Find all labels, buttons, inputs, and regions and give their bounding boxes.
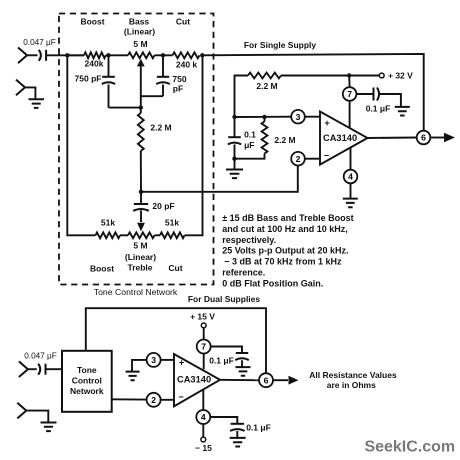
svg-text:μF: μF (244, 140, 254, 150)
svg-text:All Resistance Values: All Resistance Values (309, 370, 397, 380)
svg-text:Treble: Treble (127, 263, 152, 273)
svg-text:0.1 μF: 0.1 μF (366, 104, 391, 114)
svg-text:− 3 dB at 70 kHz from 1 kHz: − 3 dB at 70 kHz from 1 kHz (224, 257, 342, 267)
tone control network block (dual supply) (62, 351, 112, 412)
input jack J4 (dual supply, grounded) (17, 403, 48, 422)
svg-text:and cut at 100 Hz and 10 kHz,: and cut at 100 Hz and 10 kHz, (222, 224, 348, 234)
label R1 240k (85, 59, 104, 69)
svg-text:CA3140: CA3140 (177, 374, 211, 384)
wire: treble pot to R7 (155, 234, 161, 236)
svg-text:Cut: Cut (176, 17, 190, 27)
label R4 2.2 M (150, 123, 171, 133)
label R2 5 M (133, 39, 147, 49)
svg-text:2.2 M: 2.2 M (274, 135, 295, 145)
svg-text:SeekIC.com: SeekIC.com (364, 439, 455, 456)
wire: pin 4 to ground (350, 183, 352, 198)
svg-text:2.2 M: 2.2 M (256, 81, 277, 91)
capacitor C4 20 pF (133, 192, 149, 222)
pin 7 circle (U1 V+) (343, 87, 357, 101)
svg-text:6: 6 (264, 375, 269, 385)
pin 2 circle (U2 inverting input) (147, 393, 161, 407)
wire: pin 7 to U2 (203, 354, 205, 370)
svg-text:Cut: Cut (168, 263, 182, 273)
label R6 5 M (133, 241, 147, 251)
input jack J3 (dual supply) (19, 361, 37, 377)
label C8 0.1 uF (209, 356, 234, 366)
capacitor C6 0.1 uF (supply bypass) (356, 88, 401, 107)
pin 3 circle (U2 non-inverting input) (147, 353, 161, 367)
svg-text:25 Volts p-p Output at 20 kHz.: 25 Volts p-p Output at 20 kHz. (222, 246, 348, 256)
op-amp U1 CA3140 (single supply) (320, 112, 368, 165)
svg-text:0.047 μF: 0.047 μF (23, 38, 55, 47)
wire: U1 to pin 4 (350, 148, 352, 170)
svg-text:51k: 51k (101, 218, 115, 228)
svg-text:−: − (324, 151, 329, 161)
SeekIC.com watermark (364, 439, 455, 456)
label R9 2.2 M (256, 81, 277, 91)
svg-text:4: 4 (201, 412, 206, 422)
capacitor C1 0.047 uF (input coupling) (39, 50, 84, 61)
capacitor C3 750 pF (right) (141, 55, 170, 96)
wire: input node to bass network (67, 54, 84, 56)
label Boost (bass pot, left) (80, 17, 104, 27)
resistor R8 2.2 M (pin 3 to ground node) (235, 117, 268, 159)
wire: pin 4 to -15 terminal (202, 424, 204, 437)
label R7 51k (165, 218, 179, 228)
wiper of bass pot (arrow up) with wire down (137, 59, 145, 108)
label +15 V (190, 312, 215, 322)
wire: +32V node to pin 7 (348, 76, 350, 88)
label C1 value 0.047 uF (23, 38, 55, 47)
label C7 0.047 uF (24, 352, 56, 361)
wire: pin 2 stub to U2 (161, 399, 174, 401)
wire: pin 3 to ground (132, 360, 147, 371)
label R5 51k (101, 218, 115, 228)
svg-text:Control: Control (72, 376, 102, 386)
svg-text:+ 32 V: + 32 V (388, 71, 413, 81)
wire: pin 7 to U1 (349, 101, 351, 128)
note text block (performance summary) (222, 213, 353, 289)
svg-text:51k: 51k (165, 218, 179, 228)
label Treble (127, 263, 152, 273)
node: R1/C2/5M junction (106, 53, 110, 57)
svg-text:20 pF: 20 pF (152, 201, 174, 211)
input jack J1 (top section) (18, 48, 38, 64)
svg-text:Tone: Tone (77, 365, 97, 375)
svg-text:(Linear): (Linear) (124, 27, 155, 37)
capacitor C8 0.1 uF (V+ bypass, dual) (211, 347, 249, 367)
capacitor C9 0.1 uF (V- bypass, dual) (210, 417, 244, 438)
svg-text:0.1 μF: 0.1 μF (246, 423, 271, 433)
node: +32V junction (347, 73, 351, 77)
svg-text:CA3140: CA3140 (323, 133, 357, 143)
capacitor C7 0.047 uF (input coupling, dual) (38, 364, 62, 375)
svg-text:0.047 μF: 0.047 μF (24, 352, 56, 361)
wire: R5 to treble pot (120, 234, 128, 236)
svg-text:pF: pF (173, 83, 183, 93)
svg-text:6: 6 (421, 133, 426, 143)
svg-text:240k: 240k (85, 59, 104, 69)
label R6 (Linear) (125, 252, 156, 262)
node: 5M/R3/C3 junction (161, 53, 165, 57)
svg-text:2: 2 (151, 395, 156, 405)
resistor R9 2.2 M (pin 3 to +32V) (235, 73, 350, 117)
label C4 20 pF (152, 201, 174, 211)
wire: U2 to pin 4 (202, 389, 204, 410)
node: bass wiper / 750pF junction (139, 105, 143, 109)
ground at C9 (230, 438, 246, 447)
wire: bass pot to R3 (155, 54, 173, 56)
svg-text:Tone Control Network: Tone Control Network (94, 287, 178, 297)
svg-text:3: 3 (296, 112, 301, 122)
label For Single Supply (244, 40, 317, 50)
label R8 2.2 M (274, 135, 295, 145)
svg-text:7: 7 (347, 89, 352, 99)
node: input junction (bass/treble split) (65, 53, 69, 57)
wire: feedback from network to op-amp output (202, 54, 423, 131)
svg-text:0 dB Flat Position Gain.: 0 dB Flat Position Gain. (222, 279, 323, 289)
output arrow (dual supply) (273, 376, 299, 385)
label +32 V (388, 71, 413, 81)
resistor R1 240k (84, 52, 106, 58)
svg-text:4: 4 (348, 172, 353, 182)
svg-text:5 M: 5 M (133, 241, 147, 251)
svg-text:5 M: 5 M (133, 39, 147, 49)
wire: treble network to output branch (right vertical) (185, 55, 203, 235)
wire: network block to pin 2 (112, 398, 147, 400)
node: R4/C4/inverting-input junction (139, 190, 143, 194)
op-amp U2 CA3140 (dual supply) (174, 354, 220, 406)
svg-text:0.1: 0.1 (244, 130, 256, 140)
node: bass network output junction (200, 53, 204, 57)
wiper of treble pot (arrow down) (137, 223, 145, 232)
svg-text:2: 2 (296, 154, 301, 164)
pin 4 circle (U2 V-) (196, 410, 210, 424)
node: C5/R8 ground junction (232, 157, 236, 161)
svg-text:7: 7 (201, 342, 206, 352)
resistor R5 51k (left) (96, 232, 121, 238)
ground at pin 3 (U2) (126, 372, 140, 381)
wire: left branch down to treble network (67, 55, 95, 235)
capacitor C5 0.1 uF (bias bypass) (228, 117, 241, 159)
wire: pin 3 to bias divider (235, 116, 292, 118)
svg-text:+ 15 V: + 15 V (190, 312, 215, 322)
svg-text:+: + (179, 358, 184, 368)
wire: pin 2 stub to U1 (305, 158, 320, 160)
terminal -15 V (201, 437, 206, 442)
pin 6 circle (U2 output) (259, 373, 273, 387)
svg-text:Boost: Boost (80, 17, 104, 27)
ground at pin 4 (343, 199, 358, 208)
svg-text:Network: Network (70, 386, 104, 396)
svg-text:(Linear): (Linear) (125, 252, 156, 262)
ground at bias network (226, 159, 243, 178)
ground at J4 (41, 423, 57, 432)
label C6 0.1 uF (366, 104, 391, 114)
tone control network boundary (dashed box) (59, 14, 214, 285)
wire: U2 output to pin 6 (220, 379, 259, 381)
label C2 750 pF (75, 74, 102, 84)
output arrow (single supply) (430, 133, 455, 143)
label Boost (treble) (90, 264, 114, 274)
svg-text:reference.: reference. (222, 267, 265, 277)
svg-text:750 pF: 750 pF (75, 74, 102, 84)
pin 6 circle (U1 output) (417, 131, 431, 145)
svg-text:Boost: Boost (90, 264, 114, 274)
svg-text:750: 750 (172, 74, 186, 84)
svg-text:−: − (178, 392, 183, 402)
pin 7 circle (U2 V+) (197, 340, 211, 354)
wire: pin 3 stub to U1 (305, 116, 320, 118)
label C3 750 pF (172, 74, 186, 94)
svg-text:± 15 dB Bass and Treble Boost: ± 15 dB Bass and Treble Boost (222, 213, 353, 223)
wire: treble node to pin 2 (141, 166, 298, 192)
ground at C8 (236, 367, 251, 376)
wire: +15V to pin 7 (203, 328, 205, 340)
svg-text:0.1 μF: 0.1 μF (209, 356, 234, 366)
svg-text:respectively.: respectively. (222, 235, 276, 245)
wire: network block to output (top route) (86, 308, 266, 373)
pin 3 circle (U1 non-inverting input) (291, 110, 305, 124)
wire: R1 to bass pot (106, 54, 128, 56)
pin 4 circle (U1 V-) (344, 170, 358, 184)
wire: U1 output to pin 6 (368, 137, 417, 140)
pin 2 circle (U1 inverting input) (291, 152, 305, 166)
svg-text:For Dual Supplies: For Dual Supplies (188, 294, 261, 304)
potentiometer R2 5M Bass (Linear) (128, 52, 155, 58)
svg-text:+: + (324, 118, 329, 128)
ground at J2 (29, 99, 45, 108)
terminal +32 V (349, 73, 384, 78)
label All Resistance Values are in Ohms (309, 370, 397, 390)
svg-text:are in Ohms: are in Ohms (327, 380, 376, 390)
node: divider top junction (262, 115, 266, 119)
label -15 (195, 443, 212, 453)
svg-text:2.2 M: 2.2 M (150, 123, 171, 133)
svg-text:3: 3 (151, 355, 156, 365)
label For Dual Supplies (188, 294, 261, 304)
label Bass (Linear) (124, 17, 155, 37)
label C5 0.1 uF (244, 130, 256, 150)
svg-text:240 k: 240 k (176, 60, 198, 70)
terminal +15 V (201, 323, 206, 328)
resistor R7 51k (right) (160, 232, 185, 238)
ground at C6 (395, 107, 410, 116)
label Cut (bass pot, right) (176, 17, 190, 27)
wire: pin 3 stub to U2 (161, 359, 174, 361)
resistor R4 2.2 M (bass wiper to treble node) (138, 108, 144, 192)
resistor R3 240 k (173, 52, 200, 58)
svg-text:− 15: − 15 (195, 443, 212, 453)
label Cut (treble) (168, 263, 182, 273)
label R3 240 k (176, 60, 198, 70)
node: bias/cap junction (232, 115, 236, 119)
svg-text:For Single Supply: For Single Supply (244, 40, 317, 50)
svg-text:Bass: Bass (129, 17, 150, 27)
potentiometer R6 5M Treble (Linear) (128, 232, 155, 238)
label C9 0.1 uF (246, 423, 271, 433)
label Tone Control Network (dashed box caption) (94, 287, 178, 297)
capacitor C2 750 pF (left) (102, 55, 141, 107)
input jack J2 (top section, grounded) (16, 80, 35, 99)
